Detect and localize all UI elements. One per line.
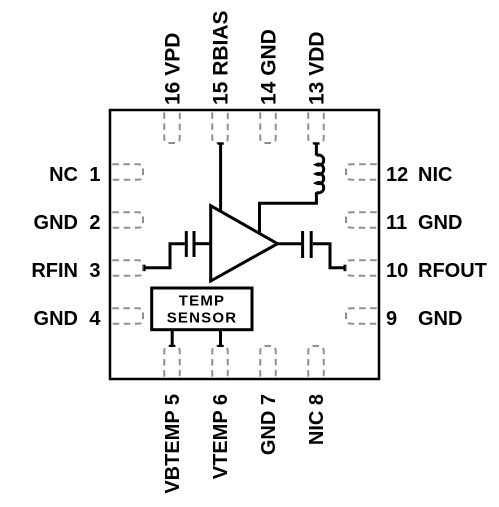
junction tick at pad 6 [217,345,223,347]
svg-text:13 VDD: 13 VDD [306,31,329,105]
pad 9 (GND) [346,308,379,324]
svg-text:3: 3 [89,260,100,282]
capacitor C1 (input DC block) [186,231,194,257]
svg-text:9: 9 [386,308,397,330]
svg-text:RFOUT: RFOUT [418,260,487,282]
pad 2 (GND) [110,212,143,228]
svg-text:12: 12 [386,164,408,186]
svg-text:SENSOR: SENSOR [167,309,238,326]
wire VDD: pad 13 down to inductor [315,144,318,156]
svg-text:RFIN: RFIN [31,260,78,282]
svg-text:11: 11 [386,212,407,234]
package outline [110,110,379,379]
op-amp U1 (amplifier triangle) [211,206,278,281]
junction tick at pad 3 [143,265,145,272]
pad 1 (NC) [110,164,143,180]
pad 13 (VDD) [308,110,324,143]
junction tick at pad 5 [169,345,175,347]
temp sensor block [152,288,252,330]
svg-text:10: 10 [386,260,408,282]
wire: inductor to amplifier output node [260,192,317,233]
svg-text:GND: GND [418,212,462,234]
inductor L1 (VDD choke) [316,155,323,193]
junction tick at pad 10 [344,265,346,272]
junction tick at pad 13 [313,143,319,145]
pad 3 (RFIN) [110,260,143,276]
svg-text:16 VPD: 16 VPD [162,33,185,105]
svg-text:2: 2 [89,212,100,234]
svg-text:VBTEMP 5: VBTEMP 5 [162,394,184,494]
wire: input capacitor to amplifier [196,242,211,245]
svg-text:GND: GND [34,212,78,234]
svg-text:TEMP: TEMP [179,292,225,309]
pad 4 (GND) [110,308,143,324]
svg-text:1: 1 [89,164,100,186]
wire RFOUT: output capacitor to pad 10 [313,244,345,268]
svg-text:NC: NC [49,164,78,186]
pad 6 (VTEMP) [212,346,228,379]
svg-text:GND: GND [418,308,462,330]
svg-text:VTEMP 6: VTEMP 6 [210,394,232,479]
wire RBIAS: pad 15 to amplifier top edge [219,144,222,212]
pad 5 (VBTEMP) [164,346,180,379]
wire: amplifier output to output capacitor [278,242,302,245]
pad 16 (VPD) [164,110,180,143]
pad 14 (GND) [260,110,276,143]
pad 10 (RFOUT) [346,260,379,276]
svg-text:NIC 8: NIC 8 [306,394,328,445]
wire RFIN: pad 3 to input capacitor [145,244,185,268]
wire VTEMP: temp sensor to pad 6 [219,330,222,346]
capacitor C2 (output DC block) [303,231,312,258]
pad 15 (RBIAS) [212,110,228,143]
svg-text:15 RBIAS: 15 RBIAS [210,10,233,105]
wire VBTEMP: temp sensor to pad 5 [171,330,174,346]
pad 7 (GND) [260,346,276,379]
svg-text:4: 4 [89,308,101,330]
svg-text:GND 7: GND 7 [258,394,280,455]
pad 12 (NIC) [346,164,379,180]
svg-text:GND: GND [34,308,78,330]
junction tick at pad 15 [217,143,223,145]
svg-text:14 GND: 14 GND [258,29,281,105]
pad 11 (GND) [346,212,379,228]
svg-text:NIC: NIC [418,164,452,186]
pad 8 (NIC) [308,346,324,379]
